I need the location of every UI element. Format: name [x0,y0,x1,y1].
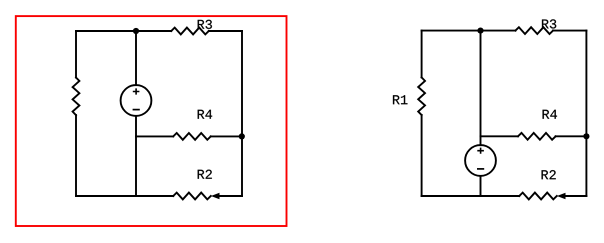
resistor R4 (left circuit) [173,133,211,140]
wire: right vertical (right circuit) [585,31,587,196]
wire: left branch top segment (right circuit) [421,31,423,78]
wire: R4 branch left segment (right circuit) [481,135,519,137]
wire: top left segment (right circuit) [422,30,516,32]
node: top junction (right circuit) [477,28,483,34]
voltage source minus sign (right circuit) [477,168,484,170]
wire: right vertical (left circuit) [241,31,243,196]
resistor (unlabeled) left branch of left circuit [73,78,80,116]
label R4 (left circuit) [198,110,212,119]
wire: bottom right segment (right circuit) [566,195,587,197]
label R1 (right circuit) [393,95,407,104]
wire: middle vertical upper segment (right circuit) [480,31,482,146]
wire: bottom right segment (left circuit) [220,195,243,197]
wire: left branch bottom segment (right circuit) [421,115,423,196]
wire: bottom left segment (left circuit) [76,195,173,197]
wire: R4 branch right segment (right circuit) [556,135,587,137]
node: R4/right-branch junction (left circuit) [239,133,245,139]
resistor R2 (left circuit) [173,193,211,200]
wire: bottom left segment (right circuit) [422,195,520,197]
label R4 (right circuit) [543,110,557,119]
label R2 (right circuit) [542,170,556,179]
voltage source V1 plus sign [133,88,140,94]
node: R4/right-branch junction (right circuit) [583,133,589,139]
wire: middle vertical lower segment (left circuit) [135,116,137,196]
wire: middle vertical lower segment (right circuit) [480,176,482,196]
voltage source V1 (right circuit) [465,145,496,176]
arrow: current direction into R2 (right circuit) [557,193,566,199]
label R3 (left circuit) [198,20,212,29]
resistor R3 (right circuit) [515,27,553,34]
wire: top left segment (left circuit) [76,30,171,32]
wire: left branch bottom segment (left circuit) [75,115,77,196]
voltage source plus sign (right circuit) [477,148,484,154]
resistor R4 (right circuit) [518,133,556,140]
label R3 (right circuit) [542,19,556,28]
resistor R2 (right circuit) [519,193,557,200]
wire: left branch top segment (left circuit) [75,31,77,78]
wire: R4 branch left segment (left circuit) [136,135,173,137]
node: top junction (left circuit) [133,28,139,34]
voltage source V1 minus sign [133,109,140,111]
arrow: current direction into R2 (left circuit) [211,193,220,199]
wire: R4 branch right segment (left circuit) [211,135,242,137]
wire: middle vertical upper segment (left circuit) [135,31,137,85]
resistor R3 (left circuit) [171,28,209,35]
wire: top right segment (right circuit) [553,30,586,32]
resistor R1 (right circuit) [418,77,425,115]
wire: top right segment (left circuit) [209,30,242,32]
red highlight box around left circuit [16,16,287,226]
voltage source V1 (left circuit) [121,85,152,116]
label R2 (left circuit) [198,170,212,179]
